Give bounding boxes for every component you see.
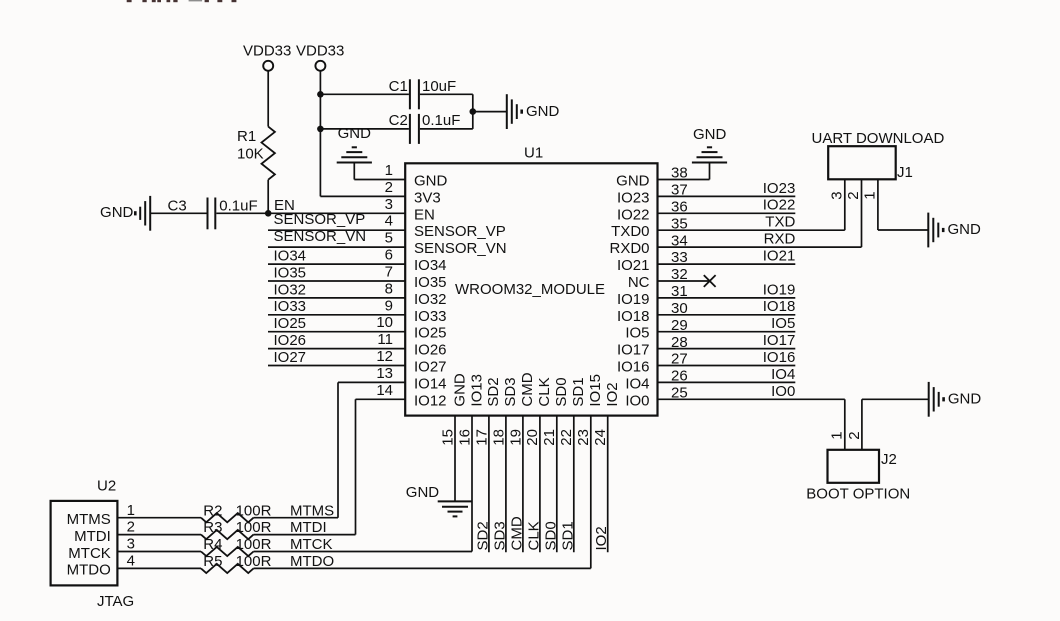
wire GND to C3 xyxy=(151,212,207,214)
svg-text:SENSOR_VN: SENSOR_VN xyxy=(274,228,367,245)
svg-text:16: 16 xyxy=(456,429,473,446)
svg-text:5: 5 xyxy=(385,230,393,247)
svg-text:0.1uF: 0.1uF xyxy=(219,198,257,215)
svg-text:17: 17 xyxy=(473,429,490,446)
svg-text:SD2: SD2 xyxy=(485,377,502,406)
wire pin 27 (IO16) xyxy=(658,365,796,367)
svg-text:1: 1 xyxy=(127,502,135,519)
wire pin 38 GND xyxy=(658,179,710,181)
svg-text:IO26: IO26 xyxy=(274,332,307,349)
svg-text:IO12: IO12 xyxy=(414,392,447,409)
svg-text:BOOT OPTION: BOOT OPTION xyxy=(806,486,910,503)
svg-text:4: 4 xyxy=(127,553,135,570)
svg-text:C1: C1 xyxy=(389,78,408,95)
wire U2 pin 1 to R2 xyxy=(117,517,201,519)
wire R5 to MTDO xyxy=(254,567,591,569)
wire VDD33 down to 3V3 pin 2 xyxy=(319,71,321,197)
wire VDD33 to R1 xyxy=(267,71,269,127)
capacitor C2 0.1uF xyxy=(320,128,409,130)
svg-text:23: 23 xyxy=(575,429,592,446)
resistor R1 10K xyxy=(262,127,275,180)
wire pin 9 (IO33) xyxy=(268,314,405,316)
wire pin 23 IO15 to MTDO xyxy=(590,416,592,569)
svg-text:IO25: IO25 xyxy=(274,315,307,332)
svg-text:IO0: IO0 xyxy=(771,383,795,400)
svg-text:IO19: IO19 xyxy=(763,281,796,298)
svg-text:100R: 100R xyxy=(236,536,272,553)
svg-text:IO5: IO5 xyxy=(625,325,649,342)
svg-text:NC: NC xyxy=(628,274,650,291)
capacitor C1 10uF xyxy=(320,93,409,95)
svg-text:9: 9 xyxy=(385,297,393,314)
svg-text:3: 3 xyxy=(127,536,135,553)
svg-text:2: 2 xyxy=(385,179,393,196)
wire pin 35 TXD0 to J1 pin 3 xyxy=(658,229,845,231)
svg-text:GND: GND xyxy=(526,103,560,120)
svg-text:12: 12 xyxy=(376,348,393,365)
resistor R3 100R xyxy=(201,530,254,539)
svg-text:IO18: IO18 xyxy=(617,308,650,325)
svg-text:GND: GND xyxy=(406,484,440,501)
svg-text:J2: J2 xyxy=(881,451,897,468)
svg-text:RXD: RXD xyxy=(764,231,796,248)
svg-text:CLK: CLK xyxy=(525,521,542,550)
svg-text:IO0: IO0 xyxy=(625,392,649,409)
svg-text:IO34: IO34 xyxy=(274,247,307,264)
no-connect X on pin 32 xyxy=(704,275,716,287)
svg-text:IO35: IO35 xyxy=(414,274,447,291)
wire pin 15 GND xyxy=(454,416,456,501)
svg-text:IO19: IO19 xyxy=(617,291,650,308)
svg-text:GND: GND xyxy=(338,125,372,142)
svg-text:UART DOWNLOAD: UART DOWNLOAD xyxy=(812,130,945,147)
svg-text:MTDO: MTDO xyxy=(290,553,334,570)
wire pin 36 (IO22) xyxy=(658,212,796,214)
svg-text:U1: U1 xyxy=(524,145,543,162)
svg-text:10uF: 10uF xyxy=(422,78,456,95)
svg-text:R3: R3 xyxy=(203,519,222,536)
wire R3 to MTDI xyxy=(254,534,356,536)
svg-text:VDD33: VDD33 xyxy=(296,43,344,60)
wire pin 29 (IO5) xyxy=(658,331,796,333)
wire pin 20 (CLK) xyxy=(539,416,541,553)
svg-text:VDD33: VDD33 xyxy=(243,43,291,60)
svg-text:GND: GND xyxy=(616,173,650,190)
wire ground to pin 1 xyxy=(354,179,405,181)
wire U2 pin 4 to R5 xyxy=(117,567,201,569)
svg-text:R4: R4 xyxy=(203,536,222,553)
svg-text:IO5: IO5 xyxy=(771,315,795,332)
svg-text:IO27: IO27 xyxy=(274,349,307,366)
svg-text:MTDI: MTDI xyxy=(290,519,327,536)
wire pin 4 (SENSOR_VP) xyxy=(268,229,405,231)
wire pin 16 IO13 to MTCK xyxy=(471,416,473,552)
ground GND at U1 pin 15 xyxy=(438,500,473,502)
wire R4 to MTCK xyxy=(254,551,473,553)
wire pin 10 (IO25) xyxy=(268,331,405,333)
svg-text:18: 18 xyxy=(490,429,507,446)
svg-text:CMD: CMD xyxy=(519,372,536,406)
svg-text:TXD0: TXD0 xyxy=(611,223,649,240)
svg-text:IO23: IO23 xyxy=(617,189,650,206)
svg-text:C3: C3 xyxy=(168,198,187,215)
svg-text:IO21: IO21 xyxy=(617,257,650,274)
svg-text:TXD: TXD xyxy=(765,214,795,231)
capacitor C3 0.1uF xyxy=(207,198,209,230)
svg-text:MTMS: MTMS xyxy=(290,502,334,519)
svg-text:19: 19 xyxy=(507,429,524,446)
svg-text:3V3: 3V3 xyxy=(414,189,441,206)
svg-text:1: 1 xyxy=(829,431,846,439)
svg-text:22: 22 xyxy=(558,429,575,446)
svg-text:24: 24 xyxy=(592,429,609,446)
svg-text:6: 6 xyxy=(385,247,393,264)
svg-text:JTAG: JTAG xyxy=(97,593,134,610)
svg-text:GND: GND xyxy=(100,204,134,221)
wire pin 34 RXD0 to J1 pin 2 xyxy=(658,246,862,248)
svg-text:GND: GND xyxy=(414,173,448,190)
wire pin 22 (SD1) xyxy=(573,416,575,553)
wire U2 pin 2 to R3 xyxy=(117,534,201,536)
svg-text:15: 15 xyxy=(439,429,456,446)
svg-text:SD2: SD2 xyxy=(474,521,491,550)
wire J2 pin 2 to GND xyxy=(861,399,863,450)
svg-text:100R: 100R xyxy=(236,519,272,536)
svg-text:R5: R5 xyxy=(203,553,222,570)
svg-text:100R: 100R xyxy=(236,553,272,570)
svg-text:SD3: SD3 xyxy=(502,377,519,406)
svg-text:IO33: IO33 xyxy=(274,298,307,315)
svg-text:11: 11 xyxy=(377,331,393,348)
wire pin 30 (IO18) xyxy=(658,314,796,316)
svg-text:IO23: IO23 xyxy=(763,180,796,197)
svg-text:GND: GND xyxy=(693,126,727,143)
svg-text:SD3: SD3 xyxy=(491,521,508,550)
svg-text:1: 1 xyxy=(861,191,878,199)
wire pin 32 NC xyxy=(658,280,710,282)
junction VDD33/C2 xyxy=(317,126,324,133)
svg-text:21: 21 xyxy=(541,429,558,446)
svg-text:13: 13 xyxy=(376,365,393,382)
svg-text:IO18: IO18 xyxy=(763,298,796,315)
svg-text:IO26: IO26 xyxy=(414,342,447,359)
svg-text:10K: 10K xyxy=(237,146,264,163)
svg-text:GND: GND xyxy=(948,221,982,238)
wire pin 37 (IO23) xyxy=(658,195,796,197)
svg-text:R1: R1 xyxy=(237,128,256,145)
svg-text:IO14: IO14 xyxy=(414,375,447,392)
svg-text:SENSOR_VP: SENSOR_VP xyxy=(274,211,366,228)
wire pin 28 (IO17) xyxy=(658,348,796,350)
svg-text:SD1: SD1 xyxy=(570,377,587,406)
svg-text:SENSOR_VN: SENSOR_VN xyxy=(414,240,507,257)
junction VDD33/C1 xyxy=(317,91,324,98)
svg-text:SD1: SD1 xyxy=(559,521,576,550)
wire C1-C2 right side xyxy=(472,94,474,129)
svg-text:SD0: SD0 xyxy=(542,521,559,550)
svg-text:2: 2 xyxy=(846,431,863,439)
resistor R5 100R xyxy=(201,564,254,573)
wire pin 24 (IO2) xyxy=(607,416,609,553)
resistor R4 100R xyxy=(201,547,254,556)
svg-text:RXD0: RXD0 xyxy=(609,240,649,257)
wire pin 21 (SD0) xyxy=(556,416,558,553)
wire pin 7 (IO35) xyxy=(268,280,405,282)
svg-text:IO32: IO32 xyxy=(414,291,447,308)
svg-text:IO27: IO27 xyxy=(414,359,447,376)
svg-text:20: 20 xyxy=(524,429,541,446)
svg-text:IO22: IO22 xyxy=(763,197,796,214)
svg-text:U2: U2 xyxy=(97,478,116,495)
svg-text:2: 2 xyxy=(127,519,135,536)
resistor R2 100R xyxy=(201,513,254,522)
wire C3 to EN pin 3 xyxy=(216,212,405,214)
svg-text:EN: EN xyxy=(414,206,435,223)
svg-text:MTCK: MTCK xyxy=(290,536,333,553)
wire pin 11 (IO26) xyxy=(268,348,405,350)
svg-text:GND: GND xyxy=(948,391,982,408)
ground GND right of J2 xyxy=(928,382,930,417)
svg-text:IO25: IO25 xyxy=(414,325,447,342)
connector J1 UART DOWNLOAD xyxy=(828,146,896,179)
wire U2 pin 3 to R4 xyxy=(117,551,201,553)
wire pin 8 (IO32) xyxy=(268,297,405,299)
junction C1/C2/GND xyxy=(470,108,477,115)
svg-text:7: 7 xyxy=(385,264,393,281)
svg-text:0.1uF: 0.1uF xyxy=(422,112,460,129)
svg-text:CLK: CLK xyxy=(536,377,553,406)
svg-text:GND: GND xyxy=(451,373,468,407)
wire pin 19 (CMD) xyxy=(522,416,524,553)
svg-text:IO35: IO35 xyxy=(274,264,307,281)
wire pin 26 (IO4) xyxy=(658,381,796,383)
svg-text:IO4: IO4 xyxy=(771,366,795,383)
svg-text:WROOM32_MODULE: WROOM32_MODULE xyxy=(455,281,605,298)
cropped title text remnant xyxy=(127,0,132,2)
svg-text:100R: 100R xyxy=(236,502,272,519)
svg-text:IO21: IO21 xyxy=(763,247,796,264)
wire to GND xyxy=(473,111,507,113)
svg-text:1: 1 xyxy=(385,162,393,179)
svg-text:MTDI: MTDI xyxy=(74,528,111,545)
wire pin 14 IO12 to JTAG MTDI xyxy=(356,398,406,400)
svg-text:SENSOR_VP: SENSOR_VP xyxy=(414,223,506,240)
svg-text:SD0: SD0 xyxy=(553,377,570,406)
wire pin 17 (SD2) xyxy=(488,416,490,553)
svg-text:CMD: CMD xyxy=(508,516,525,550)
svg-text:MTCK: MTCK xyxy=(68,545,111,562)
wire pin 13 IO14 to JTAG MTMS xyxy=(338,381,405,383)
ground GND (right of C2) xyxy=(506,94,508,129)
wire pin 31 (IO19) xyxy=(658,297,796,299)
wire pin 18 (SD3) xyxy=(505,416,507,553)
ground GND right of J1 xyxy=(927,213,929,248)
svg-text:IO13: IO13 xyxy=(468,374,485,407)
svg-text:J1: J1 xyxy=(897,164,913,181)
junction EN/R1 xyxy=(265,210,272,217)
svg-text:IO17: IO17 xyxy=(617,342,650,359)
svg-text:2: 2 xyxy=(845,191,862,199)
wire R2 to MTMS xyxy=(254,517,339,519)
wire J1 pin 1 to GND xyxy=(877,179,879,230)
svg-text:IO33: IO33 xyxy=(414,308,447,325)
svg-text:IO16: IO16 xyxy=(763,349,796,366)
svg-text:MTMS: MTMS xyxy=(67,511,111,528)
wire R1 to EN node xyxy=(267,180,269,214)
svg-text:IO4: IO4 xyxy=(625,375,649,392)
IC U1 WROOM32_MODULE xyxy=(405,163,657,415)
svg-text:3: 3 xyxy=(385,196,393,213)
svg-text:4: 4 xyxy=(385,213,393,230)
svg-text:14: 14 xyxy=(376,382,393,399)
svg-text:8: 8 xyxy=(385,280,393,297)
svg-text:3: 3 xyxy=(828,191,845,199)
svg-text:IO16: IO16 xyxy=(617,359,650,376)
svg-text:R2: R2 xyxy=(203,502,222,519)
svg-text:IO2: IO2 xyxy=(604,382,621,406)
svg-text:IO15: IO15 xyxy=(587,374,604,407)
wire pin 33 (IO21) xyxy=(658,263,796,265)
svg-text:MTDO: MTDO xyxy=(67,562,111,579)
wire pin 6 (IO34) xyxy=(268,263,405,265)
wire pin 25 IO0 to J2 pin 1 xyxy=(658,398,845,400)
svg-text:C2: C2 xyxy=(389,112,408,129)
IC U2 JTAG xyxy=(51,501,118,586)
svg-text:10: 10 xyxy=(376,314,393,331)
svg-text:IO34: IO34 xyxy=(414,257,447,274)
svg-text:IO22: IO22 xyxy=(617,206,650,223)
svg-text:IO32: IO32 xyxy=(274,281,307,298)
connector J2 BOOT OPTION xyxy=(828,450,880,483)
wire pin 5 (SENSOR_VN) xyxy=(268,246,405,248)
svg-text:IO17: IO17 xyxy=(763,332,796,349)
wire pin 12 (IO27) xyxy=(268,365,405,367)
svg-text:IO2: IO2 xyxy=(593,526,610,550)
